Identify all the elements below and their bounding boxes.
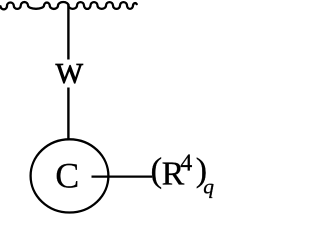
wire: vertical bond from W to circle bbox=[67, 88, 69, 141]
wire: horizontal bond from C to (R4)q bbox=[92, 175, 153, 177]
svg-text:C: C bbox=[55, 156, 79, 196]
wire: vertical bond from squiggle to W bbox=[67, 4, 69, 60]
svg-text:q: q bbox=[203, 174, 214, 198]
label (R4)q bbox=[151, 150, 215, 198]
svg-text:W: W bbox=[56, 58, 84, 90]
wavy bond line (attachment squiggle) bbox=[1, 2, 137, 9]
svg-text:4: 4 bbox=[180, 151, 192, 177]
circle (ring C) bbox=[31, 139, 109, 212]
svg-text:(: ( bbox=[151, 150, 163, 189]
